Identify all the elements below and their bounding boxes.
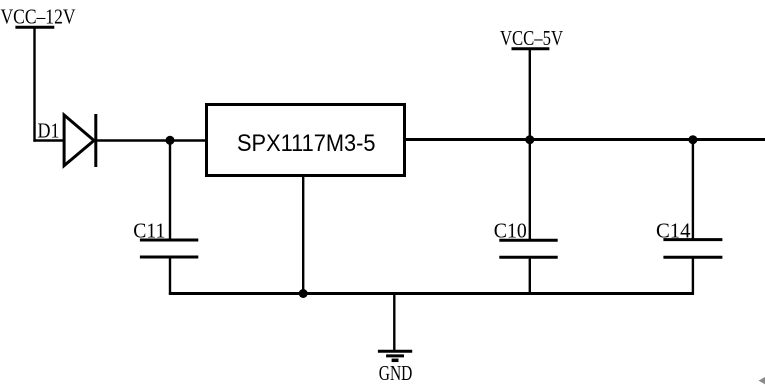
cursor artifact bottom-right	[759, 377, 765, 384]
junction dot rail/C10	[525, 135, 534, 144]
capacitor C11	[140, 240, 198, 257]
regulator U1 SPX1117M3-5 box	[207, 105, 405, 176]
capacitor C10	[499, 240, 557, 257]
svg-text:VCC–5V: VCC–5V	[500, 26, 563, 50]
svg-text:VCC–12V: VCC–12V	[1, 5, 76, 29]
wire output rail	[404, 138, 765, 141]
svg-text:SPX1117M3-5: SPX1117M3-5	[237, 130, 376, 157]
wire node A down to C11	[169, 140, 171, 241]
wire C14 bottom plate to ground rail	[692, 257, 694, 295]
capacitor C14	[663, 240, 722, 258]
wire ground stem	[393, 294, 395, 351]
wire VCC-12V to diode anode	[33, 139, 64, 142]
power bar VCC-12V	[15, 26, 54, 29]
junction node A (diode/C11/regulator)	[166, 136, 175, 145]
wire rail down to C10	[529, 140, 531, 242]
power bar VCC-5V	[512, 47, 550, 50]
junction dot regulator GND pin / ground rail	[299, 289, 308, 298]
wire regulator GND pin down	[302, 176, 304, 294]
diode D1	[64, 114, 96, 167]
wire diode cathode to regulator input	[96, 139, 207, 142]
wire VCC-5V stem to rail	[529, 49, 531, 140]
svg-text:GND: GND	[379, 361, 413, 385]
wire C10 bottom plate to ground rail	[529, 257, 531, 294]
ground symbol	[378, 351, 412, 360]
wire VCC-12V stem	[33, 27, 35, 141]
junction dot rail/C14	[688, 135, 697, 144]
svg-text:D1: D1	[38, 118, 60, 142]
wire rail down to C14	[692, 140, 694, 241]
wire C11 bottom plate to ground rail	[169, 257, 171, 295]
wire ground rail	[169, 292, 694, 295]
